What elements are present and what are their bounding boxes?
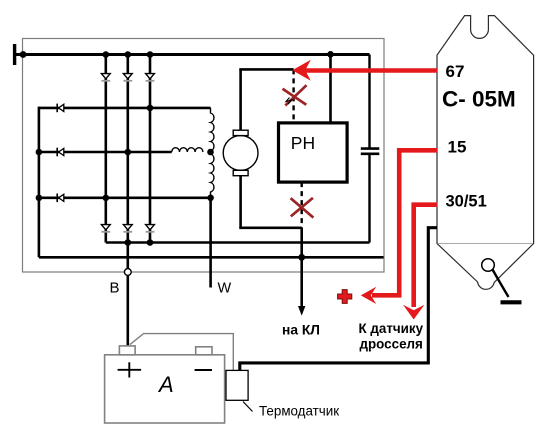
- op-amp: voltage regulator PH box: [279, 123, 348, 182]
- battery plus: [118, 369, 142, 371]
- svg-text:67: 67: [446, 62, 465, 81]
- node: phase 1 column C: [147, 105, 154, 112]
- svg-text:30/51: 30/51: [446, 192, 487, 210]
- node: coil tap: [207, 149, 214, 156]
- svg-text:на КЛ: на КЛ: [282, 323, 320, 338]
- svg-text:А: А: [157, 372, 174, 397]
- node: phase 3 column A: [103, 195, 110, 202]
- relay unit C-05M body: [437, 16, 534, 303]
- inductor: field winding (vertical coil): [211, 108, 214, 198]
- diode: upper C: [146, 74, 155, 81]
- node: rail1 column C: [147, 239, 154, 246]
- wire: stator phase 2: [39, 151, 172, 154]
- wire: brush top horizontal: [239, 68, 293, 71]
- battery minus: [195, 369, 212, 371]
- wire: to KL with arrow: [300, 228, 303, 308]
- svg-text:15: 15: [448, 138, 467, 157]
- node: rail at case edge: [20, 51, 27, 58]
- node: phase 2 column B: [125, 149, 132, 156]
- svg-text:дросселя: дросселя: [360, 337, 423, 352]
- wire: capacitor bottom lead: [368, 154, 370, 243]
- wire: dashed link bottom (removed): [301, 182, 303, 228]
- ground bar: [501, 300, 522, 304]
- wire: stator phase 1: [39, 107, 211, 110]
- wire: red 67 lead with arrow: [303, 68, 437, 73]
- pointer line to label: [243, 402, 253, 412]
- motor: rotor with brushes: [223, 130, 258, 176]
- wire: red 15 lead: [372, 150, 437, 295]
- wire: regulator feed from rail: [329, 55, 332, 123]
- wire: bottom bus (rail2): [39, 256, 384, 259]
- wire: stator phase 3: [39, 197, 211, 200]
- terminal: B output circle: [124, 269, 131, 276]
- diode: upper B: [123, 74, 132, 81]
- inductor: auxiliary winding (horizontal coil): [172, 148, 203, 152]
- capacitor C: [361, 149, 380, 154]
- node: rail column A: [103, 51, 110, 58]
- svg-text:W: W: [218, 281, 232, 297]
- red plus symbol: [338, 290, 352, 304]
- node: rail column C: [147, 51, 154, 58]
- X mark bottom (crossed-out link): [291, 198, 314, 218]
- arrowhead 30/51 (down): [403, 305, 424, 320]
- wire: dashed link top (removed): [292, 69, 294, 123]
- arrowhead 15 (left): [361, 287, 376, 304]
- wire: brush bottom horizontal: [239, 227, 301, 230]
- arrowhead 67 (left): [292, 60, 311, 81]
- wire: rectifier column A: [105, 55, 108, 243]
- node: rail regulator feed: [327, 51, 334, 58]
- wire: red 30/51 lead: [414, 205, 438, 307]
- diode: lower B: [123, 225, 132, 232]
- generator outer case (grey box): [23, 39, 385, 273]
- wire: rectifier column C: [149, 55, 152, 243]
- diode: lower C: [146, 225, 155, 232]
- ground lead from hole: [493, 270, 509, 298]
- diode: phase 3: [57, 194, 64, 203]
- X mark top (crossed-out link): [283, 85, 307, 105]
- node: rail1 column B: [125, 239, 132, 246]
- wire: stator left bus: [38, 107, 41, 258]
- svg-text:С- 05М: С- 05М: [442, 87, 516, 112]
- wire: top positive rail: [15, 53, 370, 56]
- diode: phase 1: [57, 104, 64, 113]
- wire: brush bottom riser: [239, 176, 242, 228]
- wire: rail to capacitor top: [368, 55, 370, 149]
- wire: B to battery: [127, 275, 130, 346]
- mounting hole: [482, 259, 495, 272]
- wire: rectifier bottom bus (rail1): [106, 241, 370, 244]
- node: coil bottom / W tap: [207, 195, 214, 202]
- node: rail2 KL tap: [298, 254, 305, 261]
- wire: W terminal lead: [209, 198, 212, 288]
- thermal sensor box: [226, 370, 248, 400]
- arrowhead to KL: [298, 306, 305, 316]
- wire: brush top riser: [239, 69, 242, 130]
- node: left bus phase 2: [36, 149, 43, 156]
- diode: lower A: [101, 225, 110, 232]
- svg-text:РН: РН: [291, 133, 315, 153]
- wire: rectifier column B: [127, 55, 130, 269]
- svg-text:Термодатчик: Термодатчик: [259, 404, 339, 419]
- battery A: [105, 346, 225, 423]
- diode: upper A: [101, 74, 110, 81]
- diode: phase 2: [57, 148, 64, 157]
- chassis terminal bar: [13, 44, 16, 65]
- svg-text:К датчику: К датчику: [359, 321, 424, 336]
- wire: grey lead battery plus to sensor: [130, 334, 233, 371]
- node: rail column B: [125, 51, 132, 58]
- node: left bus phase 3: [36, 195, 43, 202]
- wire: 30/51 black lead to thermal sensor: [240, 228, 437, 372]
- svg-text:В: В: [110, 280, 120, 297]
